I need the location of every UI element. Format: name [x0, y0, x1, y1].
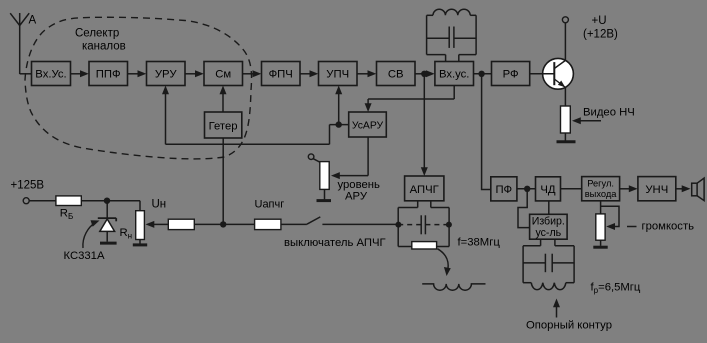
- ground (video): [557, 140, 576, 143]
- svg-text:ус-ль: ус-ль: [535, 227, 561, 239]
- wire/arrow Регул to УНЧ: [620, 185, 638, 192]
- svg-text:Uн: Uн: [152, 199, 167, 211]
- junction node after Вх.ус.: [478, 71, 484, 77]
- svg-text:f=38Мгц: f=38Мгц: [458, 237, 501, 249]
- wire resistor to ground: [564, 133, 566, 141]
- svg-text:См: См: [215, 69, 231, 81]
- wire/arrow ФПЧ to УПЧ: [300, 70, 318, 77]
- coil (inductor): [422, 284, 485, 290]
- zener diode КС331А: [98, 201, 116, 242]
- potentiometer громкость: [596, 214, 605, 240]
- block РФ: [492, 62, 530, 86]
- wire switch to tank: [322, 223, 398, 225]
- svg-text:РФ: РФ: [503, 69, 519, 81]
- resistor Uапчг: [255, 219, 281, 229]
- block См: [204, 62, 243, 86]
- svg-text:выключатель АПЧГ: выключатель АПЧГ: [284, 237, 386, 249]
- svg-text:Uапчг: Uапчг: [255, 199, 285, 211]
- junction node zener tap: [104, 198, 110, 204]
- terminal АРУ pot: [308, 154, 314, 160]
- junction node left of tank: [395, 222, 401, 228]
- svg-text:АРУ: АРУ: [345, 191, 368, 203]
- svg-text:Вх.ус.: Вх.ус.: [439, 69, 470, 81]
- antenna A: [10, 13, 29, 74]
- wire/arrow УНЧ to speaker: [676, 185, 691, 192]
- junction node right of tank: [446, 222, 452, 228]
- wire collector to +U: [564, 23, 566, 60]
- ground (АРУ pot): [317, 199, 332, 202]
- svg-text:+125В: +125В: [11, 180, 45, 192]
- svg-text:А: А: [29, 15, 37, 27]
- arrow tuning line into R_н: [146, 221, 169, 228]
- label громкость with dash: [627, 221, 694, 233]
- transistor Q1 (video emitter follower): [530, 58, 574, 89]
- block УсАРУ (AGC amplifier): [349, 112, 387, 137]
- svg-text:УПЧ: УПЧ: [326, 69, 349, 81]
- block УНЧ: [638, 177, 676, 201]
- svg-text:СВ: СВ: [388, 69, 404, 81]
- wire junction СВ down to АПЧГ: [421, 74, 428, 176]
- wire ЧД to Избир ус-ль: [548, 201, 550, 214]
- wire junction Вх.ус. down to ПФ: [482, 74, 491, 190]
- label: Селектр каналов: [75, 28, 126, 53]
- wire Избир to reference tank stubs: [541, 239, 555, 246]
- resistor in tank bottom: [412, 242, 437, 249]
- ground (R_н): [133, 243, 147, 246]
- svg-text:УсАРУ: УсАРУ: [352, 121, 384, 132]
- svg-text:Видео НЧ: Видео НЧ: [583, 107, 635, 119]
- reference tuned circuit Опорный контур: [523, 246, 574, 290]
- svg-text:КС331А: КС331А: [64, 250, 105, 262]
- wire/arrow Вх.Ус. to ППФ: [71, 70, 89, 77]
- wire resistor to Uапчг resistor with junction: [194, 223, 254, 225]
- junction node tuning/Гетер: [220, 221, 226, 227]
- block Гетер (heterodyne): [205, 112, 242, 138]
- block ППФ: [89, 62, 128, 86]
- wire/arrow Гетер to См: [220, 86, 227, 113]
- wire Вх.ус. to РФ with junction: [474, 73, 492, 75]
- block Регул. выхода: [582, 177, 620, 201]
- wire junction to Избир ус-ль (zigzag): [518, 189, 530, 228]
- svg-text:ППФ: ППФ: [96, 69, 121, 81]
- wire/arrow AGC to УПЧ: [335, 86, 342, 125]
- switch АПЧГ (open blade): [307, 217, 320, 224]
- svg-text:УНЧ: УНЧ: [645, 184, 668, 196]
- junction node AGC: [336, 121, 342, 127]
- wire/arrow См to ФПЧ: [243, 70, 262, 77]
- ground (volume pot): [593, 246, 607, 249]
- wire/arrow СВ to Вх.ус. with junction: [415, 70, 435, 77]
- resistor R_Б: [56, 196, 81, 206]
- label/arrow КС331А: [64, 220, 105, 262]
- wire/arrow AGC rail to УРУ: [162, 86, 169, 145]
- svg-text:ФПЧ: ФПЧ: [269, 69, 293, 81]
- svg-text:Опорный контур: Опорный контур: [526, 320, 612, 332]
- block ФПЧ: [262, 62, 301, 86]
- wire R_Б to R_н with junction: [81, 201, 140, 211]
- potentiometer уровень АРУ: [320, 162, 329, 190]
- wire ЧД to Регул: [561, 188, 582, 190]
- curved arrow to coil: [438, 249, 451, 276]
- block Избир. ус-ль: [530, 214, 568, 239]
- svg-text:громкость: громкость: [642, 221, 695, 233]
- svg-text:Избир.: Избир.: [532, 216, 565, 228]
- wire Вх.ус. to УсАРУ (AGC input): [365, 86, 455, 113]
- wire antenna to Вх.Ус.: [20, 73, 32, 75]
- svg-text:АПЧГ: АПЧГ: [410, 184, 439, 196]
- block ЧД: [536, 177, 561, 201]
- label уровень АРУ: [338, 179, 380, 203]
- svg-text:УРУ: УРУ: [155, 69, 177, 81]
- wire ПФ to ЧД: [517, 188, 536, 190]
- svg-text:ПФ: ПФ: [495, 184, 512, 196]
- block Вх.ус. (UPCHZ input amp): [435, 62, 474, 86]
- svg-text:уровень: уровень: [338, 179, 380, 191]
- wire/arrow ППФ to УРУ: [128, 70, 147, 77]
- ground (zener): [100, 242, 117, 245]
- block ПФ: [491, 177, 517, 201]
- arrow to Опорный контур: [553, 299, 560, 318]
- speaker: [692, 178, 704, 201]
- label/arrow Видео НЧ: [572, 107, 635, 125]
- label +U (+12В): [583, 15, 618, 41]
- wire pot to ground: [600, 240, 602, 246]
- terminal +U: [562, 17, 568, 23]
- svg-text:Вх.Ус.: Вх.Ус.: [35, 69, 66, 81]
- wire/arrow УсАРУ to АРУ level pot: [331, 137, 368, 179]
- svg-text:(+12В): (+12В): [583, 29, 618, 41]
- dashed outline: channel selector group: [25, 17, 252, 159]
- junction node after СВ: [421, 71, 427, 77]
- svg-text:+U: +U: [592, 15, 607, 27]
- wire/arrow УРУ to См: [185, 70, 204, 77]
- svg-text:fр=6,5Мгц: fр=6,5Мгц: [591, 282, 641, 296]
- junction node ПФ-ЧД: [524, 186, 530, 192]
- svg-text:каналов: каналов: [82, 41, 126, 53]
- wire Гетер down to tuning line: [222, 138, 224, 224]
- block АПЧГ: [405, 176, 444, 201]
- wire emitter down: [564, 87, 566, 106]
- wire/arrow УПЧ to СВ: [358, 70, 377, 77]
- wire terminal to pot: [313, 159, 320, 163]
- svg-text:ЧД: ЧД: [540, 184, 556, 196]
- wire Регул to volume pot with feedback loop: [601, 201, 619, 230]
- wire УсАРУ output to AGC rail: [166, 125, 349, 145]
- wire pot to ground: [324, 189, 326, 199]
- block УРУ: [147, 62, 186, 86]
- block СВ: [377, 62, 416, 86]
- block Вх.Ус.: [32, 62, 71, 86]
- terminal +125В: [23, 198, 29, 204]
- resistor in Uн line: [168, 219, 194, 229]
- wire R_н to ground: [139, 240, 141, 244]
- svg-text:Селектр: Селектр: [75, 28, 119, 40]
- resistor emitter load (video out): [561, 106, 571, 133]
- svg-text:Регул.: Регул.: [587, 179, 614, 189]
- svg-text:выхода: выхода: [585, 189, 618, 199]
- resistor R_н: [136, 211, 145, 240]
- wire to switch: [281, 223, 307, 225]
- svg-text:Гетер: Гетер: [209, 121, 238, 133]
- block УПЧ: [319, 62, 358, 86]
- tuned circuit of АПЧГ (varicap tank): [398, 201, 449, 247]
- wire to R_Б: [29, 200, 56, 202]
- tuned circuit above Вх.ус. (LC tank): [427, 9, 477, 61]
